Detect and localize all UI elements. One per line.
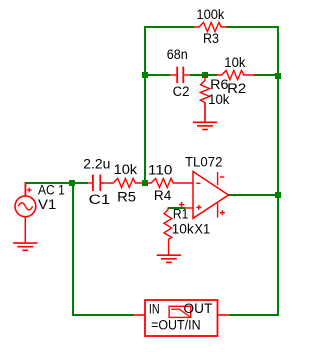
svg-text:R1: R1 xyxy=(173,206,188,221)
svg-text:10k: 10k xyxy=(114,162,138,177)
svg-text:AC 1: AC 1 xyxy=(38,182,65,197)
svg-text:2.2u: 2.2u xyxy=(83,157,110,172)
svg-text:V1: V1 xyxy=(38,197,56,212)
svg-text:10k: 10k xyxy=(208,92,230,107)
svg-text:R6: R6 xyxy=(210,77,228,92)
svg-text:10k: 10k xyxy=(224,55,245,70)
svg-text:TL072: TL072 xyxy=(185,154,222,169)
svg-text:IN: IN xyxy=(149,302,160,317)
svg-text:C1: C1 xyxy=(89,192,111,207)
svg-text:C2: C2 xyxy=(173,84,190,99)
svg-text:OUT: OUT xyxy=(184,301,213,316)
svg-text:R3: R3 xyxy=(203,31,219,46)
svg-text:=OUT/IN: =OUT/IN xyxy=(151,317,201,332)
svg-text:R5: R5 xyxy=(117,190,136,205)
svg-text:R4: R4 xyxy=(154,188,172,203)
svg-text:110: 110 xyxy=(148,162,172,177)
svg-text:R2: R2 xyxy=(227,81,246,96)
svg-text:X1: X1 xyxy=(194,222,210,237)
svg-text:68n: 68n xyxy=(167,47,188,62)
svg-text:10k: 10k xyxy=(172,222,194,237)
svg-text:100k: 100k xyxy=(196,7,224,22)
